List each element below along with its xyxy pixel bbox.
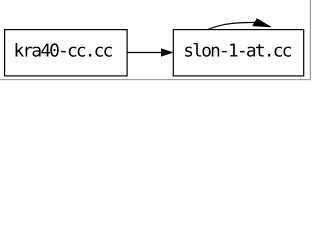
edge kra40-cc.cc -> slon-1-at.cc arrowhead [161,49,172,56]
self-loop slon-1-at.cc -> slon-1-at.cc wire [208,22,255,29]
edge kra40-cc.cc -> slon-1-at.cc wire [128,52,162,54]
self-loop arrowhead [253,19,272,27]
node kra40-cc.cc label [16,43,112,57]
frame bottom line [0,79,311,80]
node kra40-cc.cc box [5,30,128,76]
node slon-1-at.cc box [173,30,303,76]
node slon-1-at.cc label [185,43,291,57]
frame right line [310,0,311,80]
dependency graph diagram [0,0,311,83]
